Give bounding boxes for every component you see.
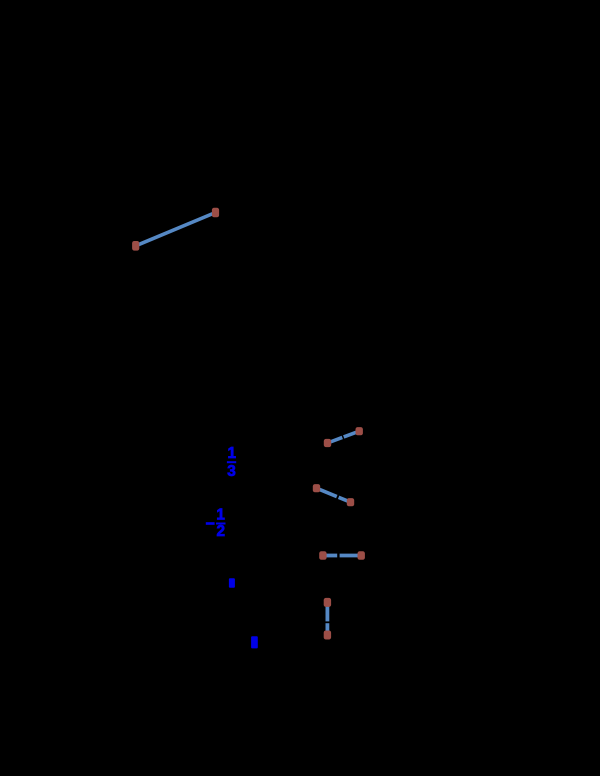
svg-text:3: 3	[227, 463, 236, 480]
segment a (small rising, right side)	[324, 427, 363, 447]
segment c (small horizontal)	[319, 551, 365, 560]
svg-text:1: 1	[227, 445, 236, 462]
segment AB (large, upper left)	[136, 213, 216, 246]
label -1/2 (blue fraction)	[206, 506, 226, 540]
label 0 (solid blue glyph)	[251, 636, 258, 648]
segment b (small falling)	[313, 484, 354, 506]
point A (left endpoint of large segment)	[132, 241, 139, 251]
svg-text:1: 1	[216, 506, 225, 523]
svg-text:2: 2	[217, 523, 226, 540]
point B (right endpoint of large segment)	[212, 208, 219, 218]
label 3 (solid blue glyph)	[229, 578, 235, 588]
label 1/3 (blue fraction)	[227, 445, 237, 480]
segment d (small vertical)	[324, 598, 331, 640]
